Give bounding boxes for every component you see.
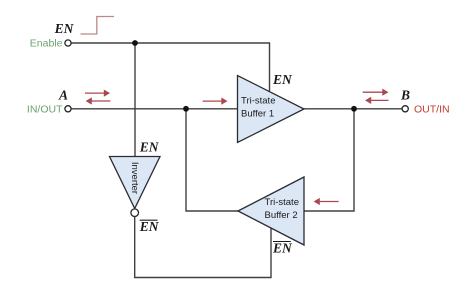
terminal A [65, 106, 71, 112]
wire from A-line junction down and right to buffer2 output tip [186, 109, 239, 211]
node junction on Enable line [132, 40, 138, 46]
wire A input to buffer1 left edge [71, 108, 238, 110]
op-amp U1 tri-state buffer 1 [238, 76, 305, 143]
svg-text:EN: EN [54, 21, 75, 36]
svg-text:Inverter: Inverter [129, 162, 140, 194]
wire from B-line junction down and left to buffer2 input [303, 109, 354, 211]
svg-text:IN/OUT: IN/OUT [27, 104, 63, 116]
svg-text:Tri-state: Tri-state [265, 197, 299, 208]
arrow right at B [363, 89, 389, 96]
svg-text:Buffer 1: Buffer 1 [241, 108, 274, 119]
svg-text:EN: EN [272, 72, 293, 87]
arrow left at A [86, 97, 111, 104]
arrow left at buffer2 input [314, 198, 339, 205]
wire inverter output down, right along bottom, up to buffer2 enable [135, 217, 271, 278]
svg-text:OUT/IN: OUT/IN [414, 104, 450, 116]
inverter U3 [110, 157, 161, 217]
svg-text:B: B [400, 88, 410, 103]
node junction on A line [183, 106, 189, 112]
terminal B [402, 106, 408, 112]
svg-text:EN: EN [272, 240, 293, 255]
label EN-bar at buffer2 enable pin [272, 240, 293, 255]
arrow right at buffer1 input [203, 98, 228, 105]
wire EN vertical from junction down to inverter input [134, 43, 136, 158]
op-amp U2 tri-state buffer 2 [238, 177, 304, 245]
svg-text:Enable: Enable [30, 38, 63, 50]
label EN-bar at inverter output [139, 219, 160, 234]
step waveform symbol [81, 17, 115, 35]
terminal Enable [65, 40, 71, 46]
inverter bubble [131, 209, 139, 217]
arrow right at A [85, 90, 110, 97]
wire buffer1 output to terminal B [303, 108, 402, 110]
node junction on B line [351, 106, 357, 112]
svg-text:A: A [58, 88, 68, 103]
arrow left at B [365, 97, 389, 104]
svg-text:Buffer 2: Buffer 2 [265, 210, 298, 221]
svg-text:EN: EN [139, 219, 160, 234]
svg-text:EN: EN [139, 140, 160, 155]
svg-text:Tri-state: Tri-state [241, 96, 275, 107]
wire Enable horizontal to corner, down to buffer1 top edge [71, 43, 269, 94]
